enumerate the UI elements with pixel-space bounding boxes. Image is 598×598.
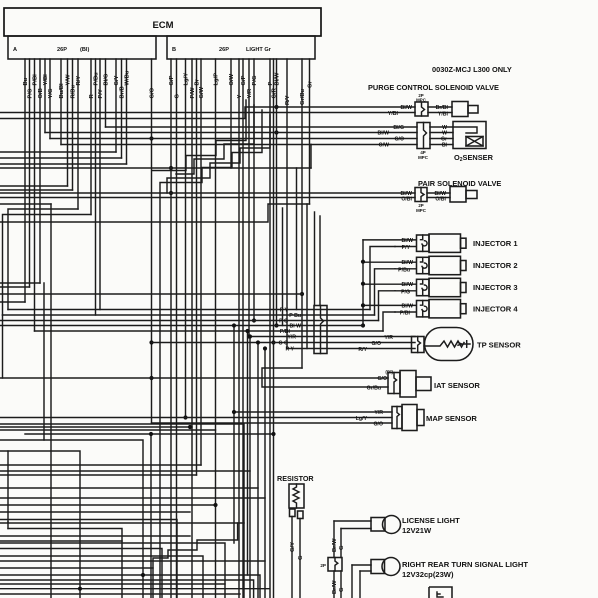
wire Bl/W to O2 sensor	[45, 132, 417, 134]
svg-text:P/Bu: P/Bu	[398, 267, 410, 273]
node branch junction 247	[245, 329, 249, 333]
wire Bl/W to injector 1	[363, 239, 416, 241]
wire turn signal wire 1	[351, 565, 353, 598]
svg-text:INJECTOR 4: INJECTOR 4	[473, 304, 518, 313]
svg-text:INJECTOR 2: INJECTOR 2	[473, 261, 518, 270]
wire P/Bu riser	[375, 269, 396, 315]
wire W/Bu left	[0, 163, 127, 165]
svg-text:Gr/Bu: Gr/Bu	[300, 88, 306, 105]
wire staircase 2	[160, 110, 262, 598]
wire lower wire 465 G/W	[0, 464, 201, 466]
PAIR solenoid valve body	[450, 187, 466, 203]
wire Y/W left	[0, 185, 68, 187]
wire turn wire right 2	[360, 570, 371, 572]
wire G/O to O2 sensor	[50, 138, 417, 140]
wire Gr staircase	[0, 204, 310, 222]
svg-text:G: G	[298, 555, 304, 560]
wire bottom wire 543	[0, 543, 225, 598]
TP sensor body	[425, 328, 474, 361]
node bus inj4	[361, 303, 365, 307]
wire R/Y harness	[287, 348, 415, 350]
wire bottom wire 580	[0, 580, 254, 598]
connector 2P license	[328, 558, 342, 572]
wire P/Bl harness	[35, 330, 384, 332]
wire bottom wire 594	[0, 593, 240, 595]
wire P/Bu to injector 2	[395, 268, 416, 270]
svg-text:B: B	[172, 47, 176, 53]
wire bottom wire 536	[0, 535, 190, 537]
wire Bl/W to injector 3	[363, 283, 416, 285]
svg-text:P Y: P Y	[280, 308, 289, 314]
node Bl/W junction purge	[274, 105, 278, 109]
resistor R1 body	[289, 484, 304, 508]
svg-text:P/Y: P/Y	[98, 89, 104, 98]
svg-text:Y/Bl: Y/Bl	[388, 111, 399, 117]
injector 4 body	[429, 300, 461, 318]
svg-text:P/Bu: P/Bu	[93, 72, 99, 86]
svg-text:Br: Br	[194, 78, 200, 85]
svg-text:Bl W: Bl W	[289, 324, 301, 330]
svg-text:26P: 26P	[57, 47, 67, 53]
wire O/Bl pair right	[427, 197, 450, 199]
wire P/Bu from ECM A	[95, 59, 97, 315]
wire lower wire 498	[0, 497, 265, 499]
wire G/Y left	[0, 151, 116, 153]
svg-text:Y/R: Y/R	[247, 88, 253, 98]
svg-text:RESISTOR: RESISTOR	[277, 474, 314, 483]
wire Y/W from ECM A	[67, 59, 69, 186]
wire Bl/G from ECM A	[105, 59, 107, 127]
svg-text:Bl/W: Bl/W	[401, 238, 413, 244]
wire branch 250	[249, 337, 251, 598]
svg-text:P G: P G	[279, 319, 288, 325]
wire vertical 296	[296, 168, 298, 310]
wire Bl/W to purge valve	[0, 107, 415, 119]
svg-text:O/Bl: O/Bl	[401, 197, 412, 203]
svg-text:Br/W: Br/W	[332, 538, 338, 552]
wire P/G left	[0, 286, 30, 288]
wire P from ECM B	[269, 59, 271, 598]
wire R/Bu left	[0, 189, 73, 191]
ECM box U1	[4, 8, 321, 36]
wire Bl/W injector bus	[362, 240, 364, 326]
node branch junction 234	[232, 323, 236, 327]
resistor pin left	[290, 509, 296, 517]
node Gr/Bu junction	[300, 292, 304, 296]
wire P/Y to injector 1	[395, 246, 416, 248]
wire W O2 right	[430, 126, 453, 128]
wire license wire top	[334, 520, 371, 522]
wire R/Y from ECM B	[286, 59, 288, 349]
svg-text:TP SENSOR: TP SENSOR	[477, 341, 521, 350]
node G/O junction TP	[149, 340, 153, 344]
wire Br/W to license light	[333, 521, 335, 558]
svg-text:Br/B: Br/B	[119, 86, 125, 98]
connector 2P MPC purge	[415, 102, 428, 116]
connector 3P MAP	[392, 407, 402, 429]
wire P/Y harness	[8, 309, 370, 311]
svg-text:G/O: G/O	[371, 341, 381, 347]
wire R/Y from ECM A	[77, 59, 79, 209]
injector 3 body	[429, 278, 461, 296]
wire bottom wire 523	[0, 522, 244, 524]
wire Bl/W harness	[0, 325, 363, 327]
connector injector 3	[417, 279, 430, 295]
wire staircase 4	[152, 100, 246, 171]
wire bottom wire 519	[0, 520, 177, 598]
wire O/W jog	[310, 145, 312, 169]
svg-text:Bl/W: Bl/W	[274, 72, 280, 85]
svg-text:R/Y: R/Y	[358, 347, 367, 353]
node PAIR Bl/W junction 2	[169, 191, 173, 195]
wire G/O harness	[152, 342, 416, 344]
wire P/Y from ECM A	[99, 59, 101, 310]
svg-text:G/P: G/P	[241, 75, 247, 85]
wire branch 247	[247, 331, 249, 575]
wire Bl/W to injector 4	[363, 304, 416, 306]
wire Y/R harness	[249, 336, 415, 338]
svg-text:Bl: Bl	[442, 143, 448, 149]
wire G/R from ECM B	[273, 59, 275, 598]
svg-text:G/O: G/O	[394, 137, 404, 143]
wire W/Bu from ECM A	[126, 59, 128, 164]
wire P/W from ECM B	[191, 59, 193, 598]
wire P/Bl to injector 4	[395, 311, 416, 313]
wire vertical 51	[50, 204, 52, 598]
connector injector 1	[417, 235, 430, 251]
wire P/G from ECM A	[29, 59, 31, 287]
svg-text:G: G	[174, 94, 180, 99]
wire O/W from ECM B	[230, 59, 232, 168]
wire vertical 307	[306, 204, 308, 349]
wire R nested L	[3, 215, 92, 316]
wire Lg/Y to MAP	[0, 417, 392, 419]
wire left run 204	[0, 203, 51, 205]
svg-text:Bu: Bu	[23, 77, 29, 85]
connector 2P MPC pair	[415, 188, 427, 202]
turn signal switch box	[429, 587, 452, 598]
wire G from resistor	[299, 519, 301, 598]
wire Br/B from ECM A	[121, 59, 123, 158]
wire Y/Bl from ECM A	[44, 59, 46, 133]
node Lg/Y junction MAP	[183, 415, 187, 419]
wire Bl/W pair right	[427, 192, 450, 194]
wire Lg/P from ECM B	[215, 59, 217, 598]
node Bl/W junction O2 heater	[274, 130, 278, 134]
ECM connector B 26P	[167, 36, 315, 59]
node G/P junction 168	[169, 166, 173, 170]
wire G/Y from resistor	[291, 517, 293, 598]
wire Gr O2 right	[430, 138, 453, 140]
wire R from ECM A	[90, 59, 92, 215]
wire G/O to IAT	[0, 377, 388, 379]
connector 3P TP sensor	[412, 337, 425, 353]
connector 4P MPC O2 sensor	[417, 123, 430, 149]
wire lower wire 471	[0, 470, 250, 472]
wire bottom wire 584	[0, 583, 225, 585]
svg-text:P/G: P/G	[401, 289, 410, 295]
wire G/O from ECM A	[151, 59, 153, 423]
node bus inj2	[361, 260, 365, 264]
svg-text:ECM: ECM	[152, 20, 173, 31]
wire vertical 282	[282, 208, 284, 326]
wire P/G harness	[0, 320, 379, 322]
turn signal bulb	[382, 558, 400, 576]
license light bulb	[383, 516, 401, 534]
svg-text:P Bu: P Bu	[289, 313, 301, 319]
wire Y/R from ECM B	[248, 59, 250, 337]
svg-text:O/W: O/W	[379, 143, 389, 149]
wire Y/G from ECM A	[49, 59, 51, 139]
node G/O junction IAT	[149, 376, 153, 380]
wire lower wire 424	[0, 424, 244, 598]
svg-text:Lg/Y: Lg/Y	[356, 416, 368, 422]
svg-text:PURGE CONTROL SOLENOID VALVE: PURGE CONTROL SOLENOID VALVE	[368, 83, 499, 92]
wire Br/Bl to valve	[428, 106, 452, 108]
wire lower wire 505	[0, 504, 216, 506]
svg-text:Bl/G: Bl/G	[103, 73, 109, 85]
wire bottom wire 588	[0, 588, 269, 590]
svg-text:Y/Bl: Y/Bl	[43, 74, 49, 86]
wire G/W from ECM B	[200, 59, 202, 465]
svg-text:MPC: MPC	[418, 155, 429, 160]
wire G/P from ECM B	[170, 59, 172, 598]
svg-text:12V21W: 12V21W	[402, 526, 432, 535]
wire W O2 right	[430, 132, 453, 134]
node junction 427	[188, 425, 192, 429]
wire O/B from ECM A	[39, 59, 41, 283]
svg-text:Y/R: Y/R	[374, 410, 383, 416]
wire bottom wire 528	[8, 529, 122, 598]
svg-text:G/O: G/O	[377, 376, 387, 382]
wire Bu from ECM A	[24, 59, 26, 302]
svg-text:O/Bl: O/Bl	[435, 197, 446, 203]
wire bottom wire 512	[0, 511, 190, 513]
wire Y/R to MAP	[234, 411, 392, 413]
svg-text:MPC: MPC	[416, 208, 427, 213]
wire G to license light	[340, 529, 342, 558]
svg-text:Gr/Bu: Gr/Bu	[367, 386, 381, 392]
wire Y from ECM B	[238, 59, 240, 598]
wire G from ECM B	[176, 59, 178, 598]
node G/O junction O2	[149, 136, 153, 140]
wire G/O to MAP	[152, 422, 393, 424]
wire P/Bl from ECM A	[34, 59, 36, 331]
wire staircase 3	[176, 105, 254, 174]
node junction 434	[149, 432, 153, 436]
svg-text:G: G	[339, 587, 345, 592]
wire bottom wire 561	[0, 560, 265, 562]
wire G/Y from ECM A	[115, 59, 117, 152]
wire left jog	[7, 522, 9, 529]
connector injector 2	[417, 257, 430, 273]
wire branch 234	[233, 326, 235, 544]
svg-text:Bl/W: Bl/W	[400, 105, 412, 111]
wire left run 168	[0, 167, 311, 169]
wire Br/B left	[0, 157, 122, 159]
wire bottom wire 541	[0, 540, 122, 542]
IAT sensor body	[400, 371, 416, 398]
svg-text:RIGHT REAR TURN SIGNAL LIGHT: RIGHT REAR TURN SIGNAL LIGHT	[402, 560, 528, 569]
connector injector 4	[417, 301, 430, 317]
wire Lg/Y from ECM B	[185, 59, 187, 418]
junction connector 6P	[314, 306, 327, 354]
svg-text:LIGHT Gr: LIGHT Gr	[246, 47, 272, 53]
svg-text:O/B: O/B	[38, 88, 44, 98]
wire Bu/Bl to O/W line	[61, 144, 311, 146]
svg-text:O/W: O/W	[229, 73, 235, 85]
wire lower wire 475 Br	[0, 474, 197, 476]
svg-text:Y/W: Y/W	[65, 74, 71, 85]
wire R/Y nested L	[8, 209, 78, 310]
svg-text:MPC: MPC	[416, 98, 427, 103]
svg-text:G/O: G/O	[373, 422, 383, 428]
wire P/Bu harness	[3, 314, 375, 316]
node junction 588b	[78, 587, 82, 591]
node bus bottom	[361, 323, 365, 327]
wire Bu/Bl from ECM A	[60, 59, 62, 145]
wire turn wire right 1	[352, 564, 371, 566]
wire lower wire 488	[0, 487, 258, 489]
svg-text:R/Y: R/Y	[285, 95, 291, 105]
node P/G junction	[252, 318, 256, 322]
svg-text:Lg/P: Lg/P	[213, 73, 219, 86]
wire Bl/W to injector 2	[363, 261, 416, 263]
svg-text:Bl/W: Bl/W	[377, 131, 389, 137]
svg-text:Bu/Bl: Bu/Bl	[59, 83, 65, 99]
resistor pin right	[298, 511, 304, 519]
wire bottom staircase	[153, 523, 238, 598]
svg-text:2P: 2P	[320, 563, 326, 568]
svg-text:P/Y: P/Y	[402, 245, 411, 251]
wire P/Y riser	[370, 247, 395, 310]
wire lower wire 434	[25, 433, 274, 435]
injector 1 body	[429, 234, 461, 252]
wire Br from ECM B	[196, 59, 198, 475]
wire lower wire 430	[0, 429, 216, 431]
svg-text:Y/R: Y/R	[384, 335, 393, 341]
wire Br/W below license conn	[333, 571, 335, 598]
wire bottom wire 575	[0, 575, 260, 598]
svg-text:12V32cp(23W): 12V32cp(23W)	[402, 570, 454, 579]
svg-text:G/Y: G/Y	[114, 75, 120, 85]
wire P/G to injector 3	[395, 290, 416, 292]
wire Gr from ECM B	[309, 59, 311, 204]
wire lower wire 427	[0, 426, 192, 428]
wire branch 151 down	[150, 434, 152, 598]
svg-text:P/G: P/G	[252, 75, 258, 85]
ECM connector A 26P	[8, 36, 156, 59]
wire bottom wire 568	[0, 567, 153, 569]
wire turn signal wire 2	[359, 571, 361, 598]
connector 2P IAT	[388, 373, 400, 394]
wire P/G from ECM B	[253, 59, 255, 321]
svg-text:INJECTOR 1: INJECTOR 1	[473, 239, 518, 248]
svg-text:Y/G: Y/G	[48, 88, 54, 98]
wire G below license conn	[340, 571, 342, 598]
svg-text:MAP SENSOR: MAP SENSOR	[426, 414, 477, 423]
svg-text:Bl/W: Bl/W	[401, 303, 413, 309]
svg-text:Bl/W: Bl/W	[401, 260, 413, 266]
wire bottom wire 548	[0, 549, 162, 598]
svg-text:P/G: P/G	[27, 88, 33, 98]
svg-text:P/W: P/W	[190, 87, 196, 98]
svg-text:R/Bu: R/Bu	[70, 85, 76, 99]
svg-text:IAT SENSOR: IAT SENSOR	[434, 381, 480, 390]
node Bl/W junction injector bus	[274, 323, 278, 327]
O2 sensor body	[453, 122, 486, 149]
node G/O-G/R junction	[271, 340, 275, 344]
wire left edge vertical 3	[7, 451, 9, 522]
svg-text:G/Y: G/Y	[290, 542, 296, 552]
svg-text:Y/R: Y/R	[287, 335, 296, 341]
node branch junction 258	[256, 340, 260, 344]
wire license wire bottom	[341, 528, 371, 530]
wire branch 265	[264, 349, 266, 598]
wire R/Bu from ECM A	[72, 59, 74, 190]
svg-text:G/O: G/O	[149, 87, 155, 98]
svg-text:LICENSE LIGHT: LICENSE LIGHT	[402, 516, 460, 525]
wire P/Bl riser	[383, 312, 395, 331]
svg-text:R/Y: R/Y	[76, 76, 82, 86]
svg-text:Y: Y	[237, 95, 243, 99]
wire G/P from ECM B	[242, 59, 244, 598]
svg-text:Gr: Gr	[307, 80, 313, 88]
wire Gr/Bu to IAT	[262, 368, 388, 387]
injector 2 body	[429, 256, 461, 274]
svg-text:W/Bu: W/Bu	[124, 70, 130, 85]
wire bottom wire 556	[0, 556, 203, 598]
MAP sensor body	[402, 405, 417, 431]
node Y/R MAP junction	[232, 410, 236, 414]
wire staircase 1	[167, 115, 270, 193]
svg-text:G: G	[339, 545, 345, 550]
wire Y/Bl to valve	[428, 112, 452, 114]
wire P/G riser	[379, 291, 396, 321]
wire O/Bl to PAIR valve	[0, 197, 415, 199]
purge control solenoid valve body	[452, 102, 468, 117]
svg-text:Bl/G: Bl/G	[393, 125, 404, 131]
svg-text:R Y: R Y	[285, 347, 294, 353]
wire Gr/Bu from ECM B	[301, 59, 303, 368]
svg-text:Br/W: Br/W	[332, 580, 338, 594]
svg-text:Y/Bl: Y/Bl	[438, 112, 449, 118]
wire junction feed 1	[314, 212, 316, 306]
node bus inj3	[361, 282, 365, 286]
svg-text:INJECTOR 3: INJECTOR 3	[473, 283, 518, 292]
node branch junction 250	[248, 334, 252, 338]
svg-text:Br/Bl: Br/Bl	[436, 105, 449, 111]
wire lower wire 440	[0, 440, 143, 598]
svg-text:G/P: G/P	[169, 75, 175, 85]
node junction 434b	[271, 432, 275, 436]
svg-text:26P: 26P	[219, 47, 229, 53]
svg-text:0030Z-MCJ L300 ONLY: 0030Z-MCJ L300 ONLY	[432, 65, 512, 74]
wire Bl/G to O2 sensor	[106, 126, 418, 128]
node branch junction 265	[263, 346, 267, 350]
svg-text:A: A	[13, 47, 17, 53]
wire Y/Bl to purge valve	[0, 112, 415, 114]
wire Bu left	[0, 301, 25, 303]
wire Bl/W from ECM B	[276, 59, 278, 326]
wire lower wire 451	[0, 451, 80, 598]
node junction 575	[141, 573, 145, 577]
wire left edge continuation	[2, 315, 4, 378]
wire Gr/Bu branch left	[0, 293, 302, 295]
svg-text:Bl/W: Bl/W	[401, 282, 413, 288]
svg-text:(Bl): (Bl)	[80, 47, 89, 53]
svg-text:Lg/Y: Lg/Y	[183, 73, 189, 86]
